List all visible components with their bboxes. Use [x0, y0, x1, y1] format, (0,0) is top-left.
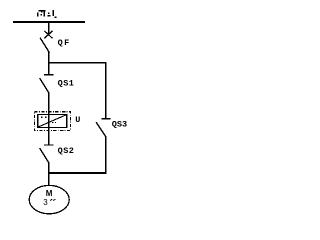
node busbar	[13, 21, 85, 23]
svg-text:QS3: QS3	[112, 119, 127, 129]
wire branch horizontal top	[48, 62, 107, 64]
soft starter U box	[38, 114, 67, 127]
svg-text:M: M	[46, 189, 53, 198]
circuit breaker QF	[40, 31, 53, 53]
wire QF to QS1	[48, 52, 50, 75]
wire QS2 to motor	[48, 162, 50, 186]
soft starter U diagonal	[38, 115, 66, 127]
svg-text:QF: QF	[58, 38, 71, 48]
wire bus to QF	[48, 21, 50, 33]
wire QS1 to U box and through to QS2	[48, 92, 50, 145]
node BUS label	[37, 10, 57, 18]
disconnector QS1	[40, 75, 54, 93]
wire bypass vertical upper	[105, 62, 107, 119]
wire branch horizontal bottom	[48, 172, 107, 174]
disconnector QS2	[40, 145, 54, 163]
soft starter U dashed enclosure	[35, 112, 71, 131]
soft starter U inner marks	[41, 116, 56, 123]
svg-text:U: U	[75, 115, 80, 125]
disconnector QS3	[96, 119, 111, 137]
svg-text:3: 3	[43, 198, 48, 207]
svg-text:QS1: QS1	[58, 79, 75, 89]
motor M circle	[29, 185, 69, 213]
wire bypass vertical lower	[105, 136, 107, 173]
svg-text:QS2: QS2	[58, 146, 75, 156]
